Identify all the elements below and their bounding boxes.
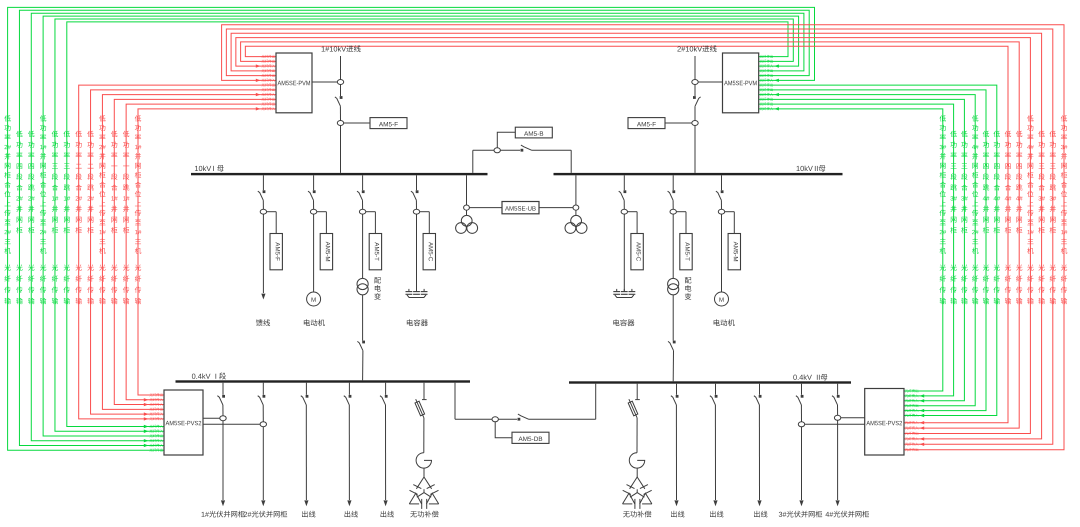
busbar metering unit AM5SE-UB: [469, 207, 502, 209]
wire from 0.4kV bus: [385, 383, 387, 395]
CT circle: [310, 209, 316, 214]
label 馈线: [256, 319, 270, 326]
fuse-switch contact: [422, 399, 427, 401]
outgoing arrow: [674, 500, 678, 506]
wire green fiber L2: [19, 10, 809, 445]
incoming line 1# with CTs and breaker QF1: [340, 56, 342, 80]
bus 10kV II: [554, 173, 843, 175]
CT circle: [220, 416, 226, 421]
breaker: [263, 395, 266, 398]
CT circle: [260, 209, 266, 214]
vertical signal-name labels on right red columns: [1005, 131, 1012, 234]
vertical signal-name labels on left red columns: [75, 131, 82, 234]
fuse blade: [629, 399, 637, 418]
PT 3-winding circles: [461, 215, 472, 226]
bus 0.4kV II: [569, 381, 851, 383]
wire red fiber L6: [138, 109, 276, 395]
wire: [362, 214, 364, 278]
fiber-optic transmission labels (vertical): [4, 264, 11, 304]
bus 10kV I: [191, 173, 488, 175]
relay AM5-F (vertical box): [267, 211, 277, 213]
wire red fiber R2: [241, 42, 1020, 428]
LV breaker for T1: [362, 341, 365, 344]
wire from 0.4kV bus: [759, 384, 761, 395]
wire: [636, 468, 638, 477]
wires PVS2-right to PV cabinet CTs: [841, 417, 865, 419]
wire from 0.4kV bus: [222, 383, 224, 395]
relay AM5-DB: [512, 432, 549, 443]
breaker: [306, 395, 309, 398]
breaker: [676, 395, 679, 398]
LV breaker for T2: [673, 341, 676, 344]
breaker: [715, 395, 718, 398]
outgoing arrow: [261, 294, 265, 300]
wire green fiber R2: [759, 104, 954, 396]
outgoing arrow: [713, 500, 717, 506]
CT circle: [834, 415, 840, 420]
wire red fiber R1: [245, 46, 1008, 423]
CT circle: [670, 209, 676, 214]
relay AM5-T (vertical box): [366, 211, 376, 213]
wire red fiber R5: [226, 29, 1052, 444]
relay AM5-T (vertical box): [676, 211, 686, 213]
wires PVS2-left to PV cabinet CTs: [203, 417, 220, 419]
wire: [262, 214, 264, 293]
wire: [636, 418, 638, 453]
outgoing arrow: [836, 500, 840, 506]
capacitor bank symbol: [616, 289, 618, 291]
wire from 0.4kV bus: [801, 384, 803, 395]
bus 0.4kV I: [176, 380, 471, 382]
wire from 0.4kV bus: [715, 384, 717, 395]
LV bus-tie with relay AM5-DB: [454, 383, 456, 420]
breaker: [263, 190, 266, 193]
breaker: [349, 395, 352, 398]
PT branch on bus II: [575, 175, 577, 205]
wire PVM1 to CT: [312, 81, 337, 83]
fiber terminal labels at 1# PVM: [262, 55, 275, 58]
wire from 0.4kV bus: [305, 383, 307, 395]
CT circle: [413, 209, 419, 214]
outgoing arrow: [221, 500, 225, 506]
wire to bus I: [340, 126, 342, 173]
vertical signal-name labels on left green columns: [4, 115, 11, 254]
wire: [423, 418, 425, 453]
wire from bus: [721, 175, 723, 190]
relay AM5-B: [515, 127, 552, 138]
relay AM5-F (incoming 2#): [628, 118, 665, 129]
filter / capacitor network: [416, 477, 431, 489]
wire from 0.4kV bus: [348, 383, 350, 395]
capacitor bank symbol: [408, 289, 410, 291]
outgoing arrow: [384, 500, 388, 506]
wire: [313, 214, 315, 292]
wire to AM5-DB: [495, 422, 512, 438]
PV grid-connection unit AM5SE-PVS2 (left): [164, 390, 203, 455]
wire from bus: [313, 175, 315, 190]
protection unit U1 AM5SE-PVM (1# host): [276, 53, 312, 113]
filter / capacitor network: [630, 477, 645, 489]
bottom labels: [202, 511, 245, 518]
relay AM5-C (vertical box): [628, 211, 638, 213]
wire from 0.4kV bus: [837, 384, 839, 395]
wire green fiber R5: [759, 90, 986, 411]
wire green fiber L1: [8, 7, 815, 450]
fuse (slanted box): [628, 401, 638, 416]
PV grid-connection unit AM5SE-PVS2 (right): [865, 389, 904, 456]
incoming line 2# with CTs and breaker QF2: [694, 56, 696, 80]
outgoing arrow: [261, 500, 265, 506]
wire: [694, 106, 696, 120]
wire red fiber R6: [222, 25, 1064, 450]
wire: [423, 468, 425, 477]
CT circle: [621, 209, 627, 214]
label 配电变 (vertical): [374, 277, 381, 300]
label 电容器: [407, 319, 428, 326]
reactor L: [416, 453, 431, 468]
wire from bus: [423, 383, 425, 400]
fuse-switch contact: [635, 399, 640, 401]
wire green fiber L4: [43, 16, 798, 436]
CT circle: [692, 121, 698, 126]
wire from bus: [623, 175, 625, 190]
breaker: [416, 190, 419, 193]
wire red fiber L5: [126, 104, 276, 400]
wire green fiber L3: [31, 13, 804, 441]
relay AM5-C (vertical box): [420, 211, 430, 213]
wire down to 0.4kV bus II: [672, 295, 674, 341]
outgoing arrow: [757, 500, 761, 506]
vertical signal-name labels on right green columns: [940, 115, 947, 254]
breaker: [721, 190, 724, 193]
reactor L: [629, 453, 644, 468]
wire green fiber R6: [759, 85, 997, 415]
wire from 0.4kV bus: [262, 383, 264, 395]
fuse blade: [416, 399, 424, 418]
breaker QF1: [340, 96, 343, 99]
breaker QF2: [693, 96, 696, 99]
wire green fiber L6: [67, 22, 788, 427]
wire green fiber R1: [759, 109, 943, 391]
wire to AM5-B: [497, 132, 515, 148]
wire from 0.4kV bus: [676, 384, 678, 395]
wire green fiber R4: [759, 95, 976, 406]
outgoing arrow: [799, 500, 803, 506]
transformer T1 two-winding circles: [357, 278, 368, 289]
label 1#10kV incoming line: [322, 45, 361, 52]
wire from bus: [362, 175, 364, 190]
wire from bus: [636, 384, 638, 400]
fiber terminal labels at left PVS2: [150, 393, 163, 396]
breaker: [362, 190, 365, 193]
wire: [340, 85, 342, 97]
relay AM5-F (incoming 1#): [344, 122, 370, 124]
wire red fiber R3: [236, 38, 1031, 434]
wire red fiber L4: [114, 99, 276, 404]
wire to bus II: [694, 126, 696, 173]
wire from bus: [672, 175, 674, 190]
breaker: [837, 395, 840, 398]
breaker: [801, 395, 804, 398]
label 电动机: [304, 319, 325, 326]
wire from bus: [416, 175, 418, 190]
CT circle: [359, 209, 365, 214]
PT branch on bus I (voltage transformer): [466, 175, 468, 205]
wire: [694, 85, 696, 97]
wire red fiber R4: [231, 33, 1042, 439]
wire red fiber L2: [91, 90, 276, 414]
fuse (slanted box): [415, 401, 425, 416]
label 2#10kV incoming line: [677, 45, 716, 52]
relay AM5-M (vertical box): [317, 211, 327, 213]
CT circle: [798, 422, 804, 427]
wire: [339, 106, 341, 120]
breaker: [313, 190, 316, 193]
wire: [416, 214, 418, 291]
breaker: [222, 395, 225, 398]
wire red fiber L3: [102, 95, 276, 410]
wire down to 0.4kV bus I: [362, 295, 364, 341]
protection unit U2 AM5SE-PVM (2# host): [723, 53, 759, 113]
motor M1 circle: [307, 292, 321, 306]
wire from bus: [262, 175, 264, 190]
breaker: [672, 190, 675, 193]
wire CT to PVM2: [698, 81, 722, 83]
fiber terminal labels at right PVS2: [905, 389, 918, 392]
breaker: [759, 395, 762, 398]
wire green fiber L5: [55, 19, 793, 431]
outgoing arrow: [347, 500, 351, 506]
bus-tie breaker with relay AM5-B: [472, 150, 474, 173]
relay AM5-M (vertical box): [725, 211, 735, 213]
motor M2 circle: [715, 292, 729, 306]
breaker: [624, 190, 627, 193]
CT circle: [718, 209, 724, 214]
fiber terminal labels at 2# PVM: [760, 55, 773, 58]
wire red fiber L1: [79, 85, 276, 419]
wire green fiber R3: [759, 99, 965, 400]
breaker: [385, 395, 388, 398]
CT circle: [260, 422, 266, 427]
outgoing arrow: [304, 500, 308, 506]
CT circle: [337, 121, 343, 126]
